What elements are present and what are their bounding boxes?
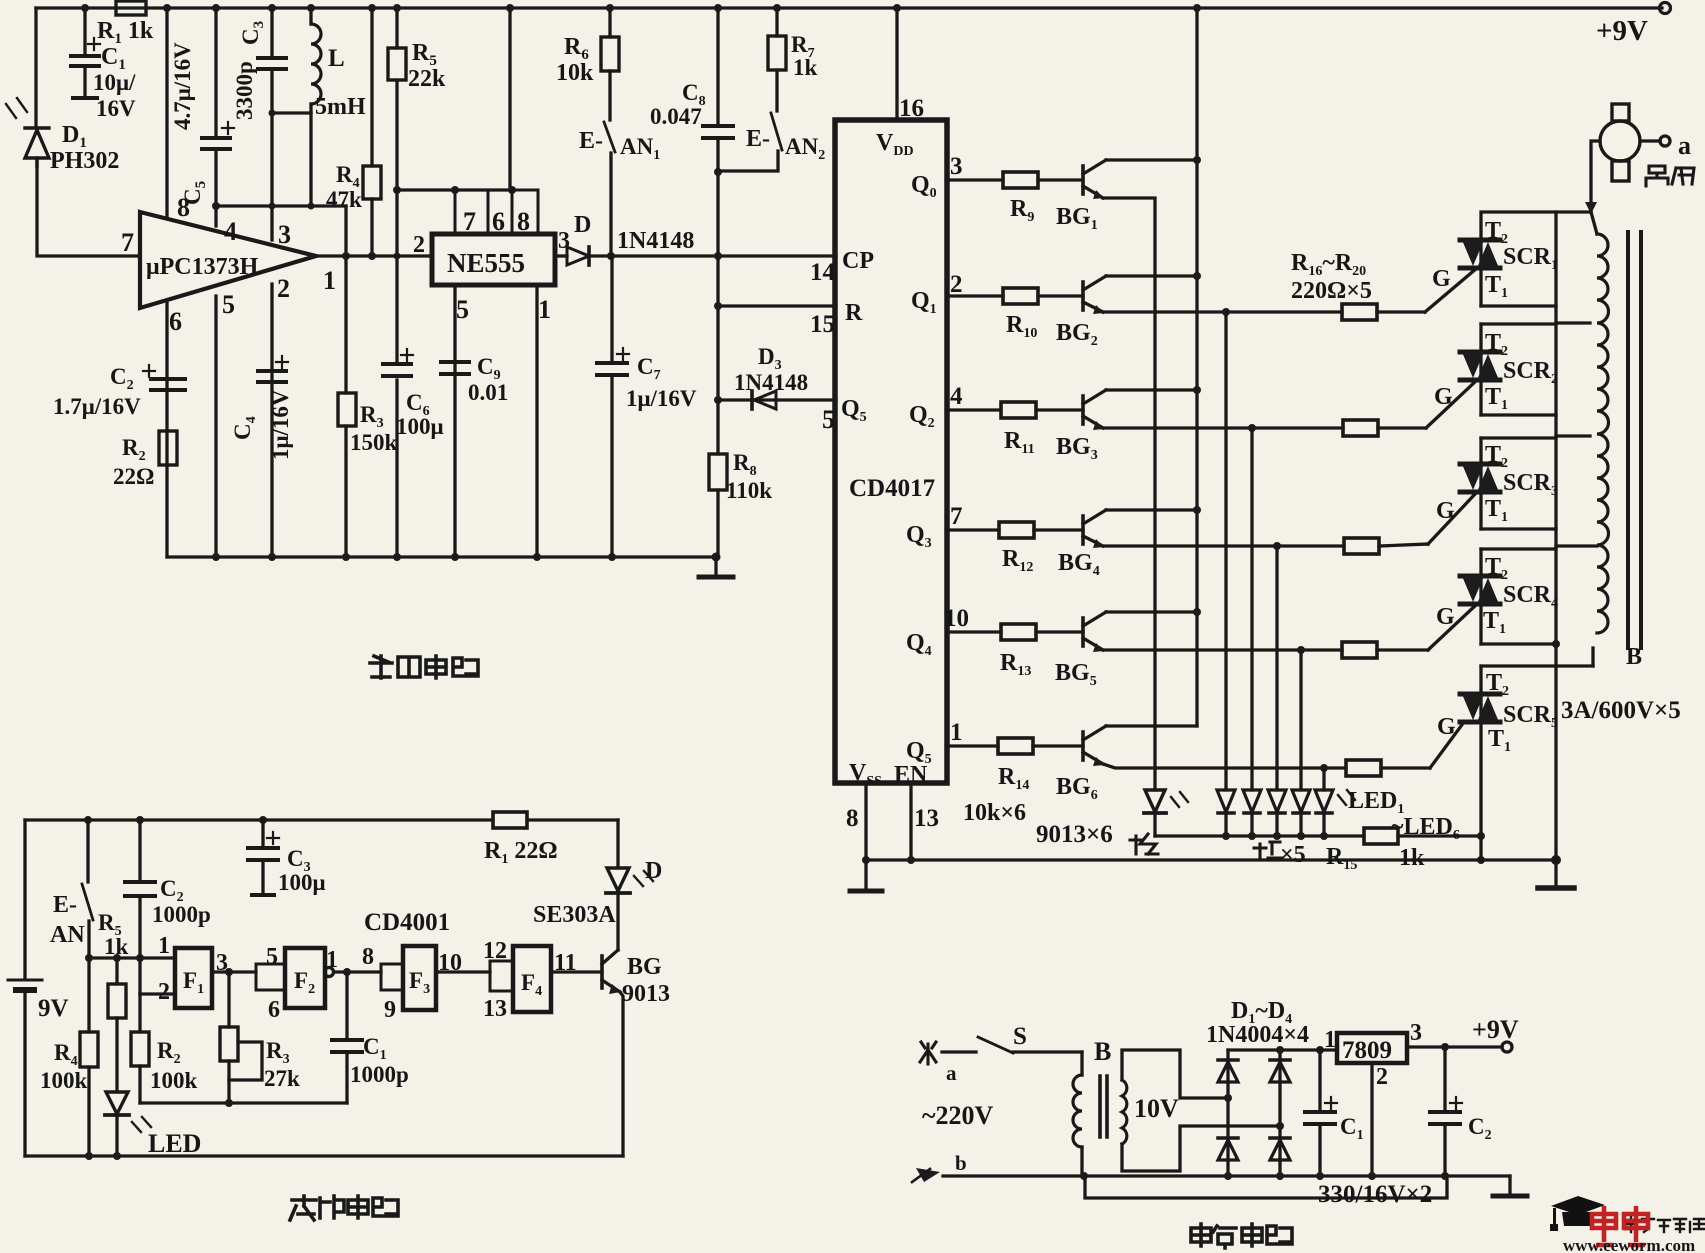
capacitor C9 0.01: [441, 362, 469, 374]
svg-text:+9V: +9V: [1472, 1015, 1519, 1044]
svg-text:SCR5: SCR5: [1503, 702, 1558, 731]
svg-text:5mH: 5mH: [315, 94, 366, 120]
svg-text:4.7μ/16V: 4.7μ/16V: [170, 42, 195, 130]
gate F1: [175, 948, 212, 1008]
wire L bottom tap: [272, 111, 311, 114]
capacitor C6 100u: [383, 364, 411, 376]
diode D4 (bridge): [1270, 1140, 1290, 1160]
svg-text:1k: 1k: [1399, 845, 1425, 871]
svg-text:R: R: [845, 300, 863, 326]
IC CD4017: [835, 120, 947, 783]
capacitor C5 4.7u/16V: [202, 138, 230, 149]
svg-text:8: 8: [846, 805, 859, 832]
resistor R5 22k: [388, 48, 406, 80]
svg-text:6: 6: [169, 307, 182, 336]
svg-text:16V: 16V: [96, 96, 136, 121]
svg-text:B: B: [1094, 1037, 1111, 1066]
transistor BG6: [1081, 732, 1085, 760]
svg-text:3: 3: [278, 220, 291, 249]
NE555 pin7 stub: [455, 190, 488, 234]
svg-text:100k: 100k: [150, 1068, 198, 1093]
wire pin8/pin6 column: [165, 8, 168, 218]
wire R3 column: [344, 206, 347, 393]
wire red LED column 4: [1299, 650, 1302, 790]
ground (PSU): [1508, 1176, 1511, 1194]
label diaoshan (ceiling fan): [1646, 166, 1694, 186]
switch AN2: [775, 70, 778, 111]
svg-text:+9V: +9V: [1596, 15, 1648, 47]
diode D1 (bridge): [1218, 1062, 1238, 1082]
wire secondary top to bridge: [1122, 1050, 1228, 1098]
svg-text:D: D: [645, 858, 662, 884]
transformer primary: [1080, 1052, 1083, 1075]
svg-text:E-: E-: [746, 126, 770, 152]
svg-text:7: 7: [121, 228, 134, 257]
+9V output terminal: [1502, 1042, 1512, 1052]
svg-text:SCR4: SCR4: [1503, 582, 1558, 611]
svg-text:2: 2: [1376, 1064, 1388, 1090]
triac SCR1: [1460, 240, 1500, 268]
svg-text:G: G: [1437, 714, 1456, 740]
photodiode D1 PH302: [25, 128, 49, 166]
resistor R14: [998, 738, 1033, 754]
svg-text:1k: 1k: [104, 934, 129, 959]
wire AN2 to C8 node: [718, 151, 778, 171]
svg-text:μPC1373H: μPC1373H: [146, 254, 259, 280]
svg-text:100k: 100k: [40, 1068, 88, 1093]
wire red LED column 5: [1322, 768, 1325, 790]
wire red LED column 1: [1224, 312, 1227, 790]
label dianzi xiazaizhan (watermark): [1625, 1217, 1704, 1232]
svg-text:R1 1k: R1 1k: [97, 18, 154, 47]
LED6 red: [1315, 790, 1333, 812]
wire DC top rail: [1228, 1048, 1337, 1051]
SCR5 box: [1479, 666, 1482, 860]
svg-text:47k: 47k: [326, 187, 362, 212]
svg-text:G: G: [1432, 266, 1451, 292]
svg-text:1.7μ/16V: 1.7μ/16V: [53, 394, 141, 419]
capacitor C1 1000p (TX): [345, 972, 348, 1038]
svg-text:9V: 9V: [38, 995, 69, 1022]
svg-text:12: 12: [483, 938, 507, 964]
svg-text:1N4148: 1N4148: [617, 228, 694, 254]
label fashe dianlu (transmitter circuit): [290, 1196, 398, 1220]
wire NE555 pin1 column: [535, 285, 538, 557]
ground (SCR chain): [1554, 860, 1557, 886]
TX top rail: [25, 818, 493, 821]
svg-text:8: 8: [177, 193, 190, 222]
transistor BG4: [1081, 516, 1085, 544]
wire fan to SCR1 T2: [1591, 141, 1600, 212]
resistor R1 22ohm (TX): [493, 812, 527, 828]
wire F1 out: [212, 970, 256, 973]
wire gate G3: [1428, 492, 1477, 544]
svg-text:9013×6: 9013×6: [1036, 821, 1113, 848]
capacitor C3 100u (TX): [261, 820, 264, 846]
resistor R10: [1003, 288, 1038, 304]
svg-text:BG: BG: [627, 954, 662, 980]
svg-text:1: 1: [158, 933, 170, 959]
tap 3: [1556, 544, 1597, 547]
TX bottom rail: [25, 1154, 623, 1157]
resistor R19: [1342, 642, 1377, 658]
inductor L 5mH: [309, 8, 312, 24]
wire pin7 net y190: [397, 188, 512, 191]
triac SCR4: [1460, 576, 1500, 604]
resistor R1 (on rail): [116, 1, 146, 15]
svg-text:1: 1: [950, 719, 963, 746]
wire C7 column: [610, 256, 613, 361]
svg-text:G: G: [1436, 498, 1455, 524]
SCR chain vertical (T1/T2 common line): [1554, 212, 1557, 860]
LED1 green: [1145, 790, 1165, 812]
diode D SE303A: [616, 820, 619, 866]
svg-text:SCR1: SCR1: [1503, 244, 1558, 273]
diode D3 (bridge): [1218, 1140, 1238, 1160]
svg-text:3: 3: [1410, 1020, 1422, 1046]
fan terminal a: [1640, 139, 1660, 142]
svg-text:2: 2: [158, 979, 170, 1005]
wire Q1: [947, 294, 1003, 297]
svg-text:7809: 7809: [1342, 1037, 1392, 1064]
svg-text:13: 13: [914, 805, 939, 832]
svg-text:8: 8: [517, 207, 530, 236]
wire TX feedback net y1103: [140, 1101, 347, 1104]
svg-text:NE555: NE555: [447, 248, 525, 278]
svg-text:1: 1: [538, 295, 551, 324]
svg-text:9: 9: [384, 997, 396, 1023]
resistor R5 1k (TX): [115, 958, 118, 984]
resistor R15 1k: [1364, 828, 1398, 844]
svg-text:11: 11: [554, 950, 577, 976]
svg-text:3: 3: [558, 228, 570, 254]
wire Q5 out: [947, 744, 998, 747]
svg-text:9013: 9013: [622, 981, 670, 1007]
op-amp U1 uPC1373H: [140, 212, 316, 308]
svg-text:a: a: [1678, 131, 1691, 160]
svg-text:2: 2: [277, 274, 290, 303]
svg-text:~220V: ~220V: [922, 1101, 994, 1130]
light arrows into D1: [6, 98, 27, 118]
svg-text:×5: ×5: [1280, 842, 1306, 868]
wire live lead a: [942, 1050, 976, 1053]
wire LED cathode bus: [1155, 834, 1364, 837]
wire R4 column: [370, 8, 373, 166]
wire CD4017 pin13: [909, 783, 912, 860]
svg-text:1: 1: [1324, 1027, 1336, 1053]
svg-text:1000p: 1000p: [350, 1062, 409, 1087]
wire CD4017 pin8: [864, 783, 867, 860]
svg-text:1N4004×4: 1N4004×4: [1206, 1022, 1309, 1048]
capacitor C2 1000p (TX): [138, 820, 141, 880]
capacitor C1 10u/16V: [83, 8, 86, 53]
wire gate G1: [1425, 268, 1477, 312]
wire D1 to pin7: [37, 160, 140, 256]
bridge column 2: [1278, 1050, 1281, 1176]
svg-text:2: 2: [413, 232, 425, 258]
svg-text:B: B: [1626, 644, 1642, 670]
svg-text:10: 10: [438, 950, 462, 976]
triac SCR2: [1460, 352, 1500, 380]
wire BG1 emitter to green LED column: [1103, 198, 1155, 790]
svg-text:CD4001: CD4001: [364, 909, 450, 936]
svg-text:LED: LED: [148, 1129, 201, 1158]
svg-text:CP: CP: [842, 248, 874, 274]
watermark chongchong red characters: [1592, 1206, 1648, 1245]
wire red LED column 3: [1275, 546, 1278, 790]
svg-text:G: G: [1436, 604, 1455, 630]
svg-text:EN: EN: [894, 762, 928, 788]
svg-text:6: 6: [268, 997, 280, 1023]
label huo (live): [920, 1042, 936, 1064]
wire rail to pin8: [508, 8, 511, 190]
wire 7809 out: [1407, 1045, 1502, 1048]
resistor R3 27k (TX): [227, 972, 230, 1027]
watermark graduation cap: [1550, 1196, 1605, 1231]
svg-text:S: S: [1013, 1023, 1027, 1050]
wire secondary bottom to bridge: [1122, 1126, 1280, 1171]
svg-text:PH302: PH302: [50, 148, 119, 174]
svg-text:1000p: 1000p: [152, 902, 211, 927]
wire NE555 pin5 column: [453, 285, 456, 557]
gate F3: [403, 946, 436, 1010]
wire rail to pin16: [895, 8, 898, 120]
wire TX net y958: [89, 956, 175, 959]
LED3 red: [1243, 790, 1261, 812]
switch S: [978, 1037, 1013, 1053]
transformer secondary 10V: [1122, 1080, 1127, 1144]
svg-text:27k: 27k: [264, 1066, 300, 1091]
wire collector +9V bus: [1195, 8, 1198, 726]
IC NE555: [432, 234, 555, 285]
switch AN1: [608, 71, 611, 120]
svg-text:14: 14: [810, 259, 836, 286]
resistor R9: [1003, 172, 1038, 188]
LED2 red: [1217, 790, 1235, 812]
LED5 red: [1292, 790, 1310, 812]
wire R net y306: [718, 304, 836, 307]
svg-text:0.047: 0.047: [650, 104, 702, 129]
svg-text:10k: 10k: [556, 60, 594, 86]
svg-text:3: 3: [216, 950, 228, 976]
battery 9V: [23, 820, 26, 978]
resistor R7 1k: [775, 8, 778, 36]
diode D3 1N4148: [750, 391, 754, 409]
resistor R3 150k: [338, 393, 356, 426]
svg-text:R1 22Ω: R1 22Ω: [484, 838, 558, 867]
svg-text:22Ω: 22Ω: [113, 464, 154, 489]
wire 7809 pin2: [1370, 1063, 1373, 1176]
svg-text:AN: AN: [50, 922, 85, 948]
capacitor C4 1u/16V: [258, 371, 286, 382]
motor winding B (tapped coil): [1591, 212, 1597, 234]
+9V terminal: [1660, 3, 1671, 14]
svg-text:E-: E-: [579, 128, 603, 154]
svg-text:3: 3: [950, 153, 963, 180]
wire pin5 column: [214, 296, 217, 557]
resistor R6 10k: [608, 8, 611, 37]
wire BG5 emitter net y650: [1103, 648, 1342, 651]
svg-text:~LED6: ~LED6: [1391, 814, 1460, 843]
capacitor C2 1.7u/16V: [151, 379, 185, 390]
wire F4 out: [551, 970, 602, 973]
triac SCR5: [1460, 694, 1500, 722]
resistor R12: [999, 522, 1034, 538]
svg-text:4: 4: [224, 217, 237, 246]
transistor BG 9013: [600, 956, 604, 988]
resistor R4 100k (TX): [87, 958, 90, 1032]
capacitor C7 1u/16V: [597, 363, 627, 375]
svg-text:SE303A: SE303A: [533, 902, 616, 928]
tap 1: [1556, 321, 1590, 324]
svg-text:22k: 22k: [408, 66, 446, 92]
svg-text:E-: E-: [53, 892, 77, 918]
svg-text:1: 1: [323, 266, 336, 295]
resistor R8 110k: [716, 400, 719, 454]
NE555 pin8 stub: [512, 190, 538, 234]
svg-text:5: 5: [222, 290, 235, 319]
capacitor C3 3300p: [258, 58, 286, 69]
svg-text:100μ: 100μ: [396, 414, 444, 439]
ground rail y860: [866, 858, 1556, 861]
wire pin4 stub: [214, 206, 217, 226]
svg-text:SCR2: SCR2: [1503, 358, 1558, 387]
wire BG2 emitter net y312: [1103, 310, 1342, 313]
resistor R17: [1343, 420, 1378, 436]
wire BG4 emitter net y546: [1103, 544, 1344, 547]
wire gate G2: [1426, 380, 1477, 428]
svg-text:1μ/16V: 1μ/16V: [268, 389, 293, 460]
svg-text:150k: 150k: [350, 430, 398, 455]
SCR2 box: [1479, 324, 1482, 415]
svg-text:L: L: [328, 45, 345, 72]
svg-text:0.01: 0.01: [468, 380, 508, 405]
wire F3 out: [436, 970, 490, 973]
resistor R2 22ohm: [159, 431, 177, 465]
svg-text:10k×6: 10k×6: [963, 800, 1026, 826]
svg-text:a: a: [946, 1061, 957, 1085]
wire pin7 horizontal is above; output line: [316, 254, 432, 257]
gate F2: [285, 948, 325, 1008]
wire 330/16V label loop: [1085, 1176, 1447, 1198]
transistor BG3: [1081, 396, 1085, 424]
wire C3/pin3/pin2 column: [270, 8, 273, 56]
transistor BG5: [1081, 618, 1085, 646]
triac SCR3: [1460, 464, 1500, 492]
wire BG3 emitter net y428: [1103, 426, 1343, 429]
ground (CD4017): [864, 860, 867, 889]
transistor BG1: [1081, 166, 1085, 194]
diode D 1N4148 (NE555 out): [555, 254, 567, 257]
wire Q0: [947, 178, 1003, 181]
tap 4 / winding bottom: [1481, 664, 1593, 667]
receiver bottom rail: [167, 555, 716, 558]
svg-text:13: 13: [483, 996, 507, 1022]
wire red LED column 2: [1250, 428, 1253, 790]
svg-text:1: 1: [326, 947, 338, 973]
svg-text:SCR3: SCR3: [1503, 470, 1558, 499]
svg-text:16: 16: [899, 95, 924, 122]
wire AGC net y206: [216, 204, 346, 207]
svg-text:1μ/16V: 1μ/16V: [626, 386, 697, 411]
SCR3 box: [1479, 438, 1482, 529]
svg-text:5: 5: [822, 405, 835, 434]
+9V top rail: [36, 6, 1662, 9]
LED4 red: [1268, 790, 1286, 812]
wire R5/C6 column: [395, 8, 398, 48]
svg-text:1N4148: 1N4148: [734, 370, 808, 395]
label lv (green): [1130, 834, 1158, 854]
diode D2 (bridge): [1270, 1062, 1290, 1082]
resistor R13: [1001, 624, 1036, 640]
resistor R11: [1001, 402, 1036, 418]
resistor R20: [1346, 760, 1381, 776]
node pin4: [212, 202, 220, 210]
wire gate G5: [1430, 722, 1464, 768]
svg-text:5: 5: [266, 944, 278, 970]
transformer core (power): [1100, 1076, 1107, 1137]
wire R3 wiper loop: [229, 1042, 262, 1080]
node: rail junction dots: [81, 4, 1201, 12]
label hong (red): [1254, 842, 1282, 860]
resistor R2 100k (TX): [138, 994, 141, 1032]
svg-text:7: 7: [950, 503, 963, 530]
transistor BG2: [1081, 282, 1085, 310]
svg-text:LED1: LED1: [1348, 788, 1404, 817]
svg-text:10μ/: 10μ/: [93, 70, 136, 95]
svg-text:5: 5: [456, 295, 469, 324]
svg-text:10: 10: [944, 605, 969, 632]
svg-text:110k: 110k: [726, 478, 772, 503]
resistor R4 47k: [363, 166, 381, 199]
svg-text:10V: 10V: [1134, 1094, 1179, 1123]
label dianyuan dianlu (power circuit): [1191, 1224, 1292, 1248]
SCR1 box: [1481, 212, 1591, 306]
svg-text:D: D: [574, 212, 591, 238]
resistor R18: [1344, 538, 1379, 554]
svg-text:7: 7: [463, 207, 476, 236]
svg-text:3A/600V×5: 3A/600V×5: [1561, 697, 1681, 724]
svg-text:1k: 1k: [793, 55, 818, 80]
wire BG6 emitter net y768: [1103, 764, 1346, 768]
wire Q5 feedback net y400: [718, 398, 836, 401]
neutral arrow symbol: [916, 1168, 940, 1182]
svg-text:8: 8: [362, 944, 374, 970]
transformer core bars: [1628, 232, 1641, 648]
capacitor C2 330u (PSU): [1443, 1047, 1446, 1110]
regulator 7809: [1337, 1033, 1407, 1063]
wire DC bottom rail: [1082, 1174, 1510, 1177]
capacitor C8 0.047: [716, 8, 719, 124]
fan motor: [1600, 121, 1640, 161]
SCR4 box: [1479, 549, 1482, 644]
svg-text:2: 2: [950, 271, 963, 298]
svg-text:CD4017: CD4017: [849, 475, 935, 502]
gate F4: [513, 946, 551, 1012]
svg-text:G: G: [1434, 384, 1453, 410]
svg-text:6: 6: [492, 207, 505, 236]
wire F2 out: [325, 968, 334, 977]
capacitor C1 330u (PSU): [1318, 1050, 1321, 1110]
tap 2: [1556, 434, 1590, 437]
switch AN (TX): [86, 820, 89, 882]
wire CP net y256: [589, 254, 836, 257]
wire F1 pin2: [140, 992, 175, 995]
svg-text:15: 15: [810, 311, 835, 338]
wire C5/pin4 column: [214, 8, 217, 136]
wire neutral lead b: [943, 1174, 1082, 1177]
svg-text:b: b: [955, 1151, 967, 1175]
